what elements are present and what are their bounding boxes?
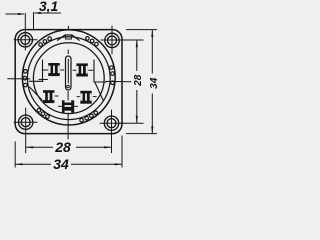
dimension 34 bottom — [15, 136, 122, 168]
mounting hole TR — [105, 33, 119, 47]
insert circle — [33, 43, 104, 114]
mounting hole TL — [18, 33, 32, 47]
mounting hole BR — [104, 116, 118, 130]
dimension 34 right — [126, 30, 157, 134]
dimension 28 right — [120, 40, 144, 123]
svg-text:28: 28 — [133, 74, 144, 87]
contact UL — [48, 63, 59, 76]
svg-text:34: 34 — [149, 77, 160, 89]
left keyway flat — [42, 60, 44, 81]
contact LL — [43, 90, 54, 103]
ring dots — [23, 37, 114, 122]
outer barrel circle — [22, 30, 115, 125]
contacts: H-shaped socket contacts — [43, 63, 92, 113]
svg-text:3,1: 3,1 — [39, 0, 58, 14]
contact LR — [80, 91, 91, 104]
contact ticks — [42, 70, 96, 106]
part centerlines — [8, 26, 131, 139]
key trapezoid at top — [58, 35, 80, 40]
hole crosshairs — [14, 14, 124, 153]
mounting hole BL — [19, 115, 33, 129]
center slot — [66, 56, 72, 90]
contact BC (vertical) — [62, 100, 74, 112]
right keyway flat — [93, 60, 95, 82]
dimension 3,1 — [6, 12, 62, 30]
inner barrel circle — [27, 37, 110, 120]
contact UR — [76, 63, 87, 76]
svg-text:28: 28 — [54, 139, 71, 155]
svg-text:34: 34 — [53, 156, 69, 172]
dimension 28 bottom — [26, 146, 112, 148]
flange outline — [15, 30, 122, 134]
